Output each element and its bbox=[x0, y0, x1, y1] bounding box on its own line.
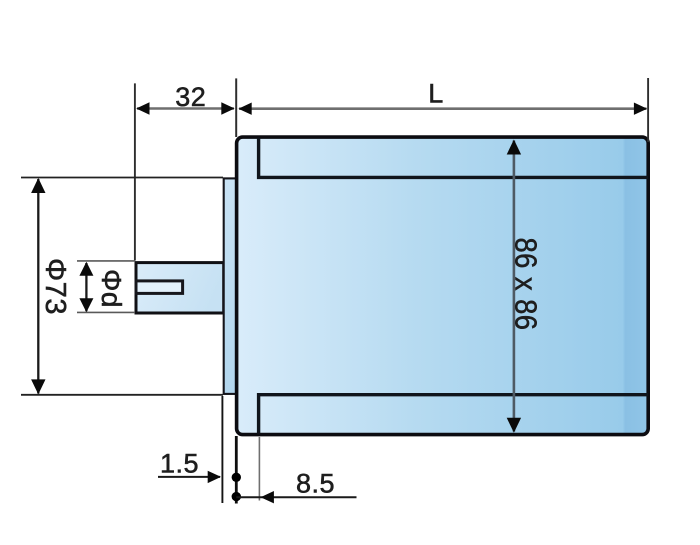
shaft bbox=[136, 263, 224, 313]
dimension 1.5 arrowhead bbox=[208, 471, 221, 483]
dimension dia-d line bbox=[85, 263, 87, 311]
dimension L line bbox=[239, 107, 647, 110]
svg-text:Φ73: Φ73 bbox=[39, 258, 71, 315]
extension line for 8.5 (end-cap step) bbox=[258, 437, 260, 501]
extension line V1 (shaft end, left of dim 32) bbox=[134, 83, 136, 260]
dimension dia73 line bbox=[37, 179, 39, 394]
svg-text:1.5: 1.5 bbox=[160, 449, 199, 479]
dimension L right arrowhead bbox=[634, 103, 647, 115]
extension line for 1.5 (boss face) bbox=[221, 396, 223, 503]
extension line top for dia d bbox=[77, 260, 135, 262]
dimension L left arrowhead bbox=[238, 103, 251, 115]
svg-text:86 x 86: 86 x 86 bbox=[509, 238, 544, 331]
shaft keyway flat bbox=[136, 281, 183, 294]
dimension 86x86 bottom arrowhead bbox=[507, 418, 521, 433]
dimension dia73 top arrowhead bbox=[31, 178, 45, 193]
mounting pilot boss bbox=[224, 178, 237, 394]
dimension 8.5 arrowhead bbox=[261, 491, 274, 503]
node dot lower on mounting face line bbox=[232, 492, 241, 501]
dimension dia-d bottom arrowhead bbox=[79, 298, 93, 312]
extension line below mounting face (dark) bbox=[235, 436, 238, 504]
dimension 86x86 top arrowhead bbox=[507, 140, 521, 155]
dimension 1.5 line bbox=[158, 476, 220, 478]
extension line V2 (mounting face, top) bbox=[235, 78, 237, 137]
svg-text:L: L bbox=[428, 79, 444, 109]
rear end-cap step line (bottom) bbox=[259, 395, 648, 434]
extension line bottom for dia 73 bbox=[21, 394, 223, 396]
extension line bottom for dia d bbox=[77, 311, 135, 313]
dimension dia-d top arrowhead bbox=[79, 262, 93, 276]
dimension 32 line bbox=[137, 107, 234, 110]
node dot upper on mounting face line bbox=[232, 473, 241, 482]
dimension 86x86 line bbox=[513, 141, 516, 432]
motor body bbox=[237, 137, 649, 435]
svg-text:Φd: Φd bbox=[96, 269, 127, 308]
dimension dia73 bottom arrowhead bbox=[31, 379, 45, 394]
dimension 8.5 line bbox=[236, 496, 356, 498]
dimension 32 right arrowhead bbox=[221, 102, 234, 114]
front end-cap step line (top) bbox=[259, 138, 648, 178]
extension line V3 (body rear, right of dim L) bbox=[647, 78, 649, 142]
svg-text:32: 32 bbox=[175, 82, 206, 112]
dimension 32 left arrowhead bbox=[136, 102, 149, 114]
extension line top for dia 73 bbox=[21, 177, 223, 179]
svg-text:8.5: 8.5 bbox=[296, 469, 335, 499]
